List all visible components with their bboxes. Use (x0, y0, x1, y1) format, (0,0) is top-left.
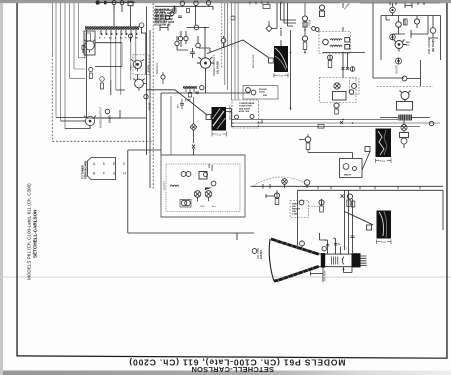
svg-text:10: 10 (333, 238, 335, 240)
node A ring (180, 1, 184, 5)
ref ring ion2 (401, 138, 407, 144)
dashed filament arc (253, 177, 310, 186)
lamp ring f1 (282, 179, 288, 185)
label width stack (209, 163, 214, 171)
ref box T2 (269, 58, 274, 63)
pot h5 (303, 3, 307, 53)
mini dashed box left (350, 79, 360, 95)
audio enclosure left leg (128, 150, 254, 233)
ref ring 31 (178, 36, 182, 40)
sound IF parts (186, 89, 199, 97)
ref ring h2 (302, 16, 307, 21)
capacitor C8 (100, 77, 105, 89)
cap APC (180, 99, 184, 109)
svg-text:B F G H: B F G H (93, 172, 129, 176)
pilot lamp 1 (194, 191, 201, 202)
ref ring pair b (186, 172, 191, 177)
tone text block (239, 103, 255, 113)
tone box (232, 100, 259, 128)
page border right (446, 3, 447, 358)
svg-text:5 cs: 5 cs (217, 133, 222, 137)
svg-text:1B3: 1B3 (406, 42, 411, 44)
scan background top band (0, 0, 451, 3)
ticks top right rail (390, 2, 424, 5)
ref ring vert3 (319, 200, 324, 205)
audio box outer (161, 155, 245, 217)
dashed link (309, 206, 320, 208)
CRT grid elements (332, 257, 338, 265)
wire into box (128, 149, 161, 151)
pot vert1 (275, 199, 279, 205)
resistor R5 (89, 67, 93, 78)
ref ring 5 (105, 109, 110, 114)
svg-text:4.5MC: 4.5MC (185, 99, 192, 102)
filament stubs (263, 184, 307, 189)
vert lin dashed box (290, 201, 309, 218)
wire sound if stub (162, 72, 164, 84)
tube V7 damper (400, 91, 411, 102)
ref ring ion1 (401, 125, 407, 131)
CRT funnel top edge (271, 239, 319, 254)
svg-text:AG: AG (109, 37, 112, 40)
wires below neck (237, 233, 352, 282)
dot hv4 (391, 36, 393, 38)
page border left (16, 3, 17, 356)
svg-text:TERM BOARD: TERM BOARD (84, 161, 88, 179)
dot hv1 (391, 9, 393, 11)
svg-text:GT: GT (406, 45, 410, 47)
ref ring h5 (302, 36, 307, 41)
node B ring (194, 1, 198, 5)
wire audio plate (95, 110, 121, 118)
wire speaker leads (226, 109, 234, 127)
wire video to sync diagonal (207, 40, 269, 58)
diode sym CR1 diamond (266, 21, 277, 32)
svg-text:GD: GD (135, 38, 138, 40)
test point TP2 (104, 1, 107, 5)
svg-text:JACK: JACK (259, 91, 265, 94)
ref ring in box (204, 173, 208, 177)
junction dot neck (343, 269, 345, 271)
svg-text:B: B (99, 38, 101, 40)
svg-text:OSC: OSC (131, 65, 133, 70)
node ring fine tune (128, 34, 132, 38)
dashed rail hv (377, 85, 434, 87)
ref ring coil r (429, 121, 433, 125)
IF strip value text block dark (154, 9, 176, 27)
dimension T2 (274, 73, 288, 78)
cap hv (404, 19, 408, 25)
tube V4 video output (197, 57, 214, 72)
wire video down (161, 72, 250, 155)
svg-text:PHONO: PHONO (259, 89, 267, 91)
ref ring o2 (334, 103, 339, 108)
ref ring t2 (250, 115, 254, 119)
wire boost stems (393, 3, 406, 65)
CRT yoke bar (321, 253, 325, 268)
wire grid stubs (177, 31, 198, 43)
wire if stubs (160, 5, 224, 50)
wire IF bus verticals (222, 3, 238, 100)
scan background left strip (0, 3, 3, 375)
ref ring damp (402, 76, 407, 81)
pin marks hv tube (406, 42, 411, 47)
svg-text:SETCHELL-CARLSON: SETCHELL-CARLSON (191, 365, 274, 374)
svg-text:H: H (125, 38, 127, 40)
pot n1 (328, 61, 332, 68)
ref ring n2 (350, 67, 355, 72)
wire tuner inner v (121, 43, 123, 67)
ref ring hv4 (390, 34, 396, 40)
wire neck lower stub (301, 240, 303, 248)
wire 2nd rail (187, 27, 210, 29)
audio box inner dashed (166, 164, 240, 212)
ref ring w1 (343, 164, 349, 170)
power line ticks (318, 186, 420, 189)
svg-text:MIXER: MIXER (148, 65, 150, 72)
svg-text:SOUND IF: SOUND IF (156, 62, 159, 74)
svg-text:5 cs: 5 cs (279, 74, 284, 78)
svg-text:L TRIM: L TRIM (309, 20, 312, 28)
wire diamond feed (193, 97, 195, 124)
box d2 (345, 38, 350, 43)
tube V5 osc (334, 83, 340, 89)
node C ring (206, 1, 210, 5)
cap o2 (335, 109, 339, 114)
tuner shield sub-box (84, 31, 95, 55)
dimension speaker (212, 132, 227, 137)
transformer T2 photo blob (274, 46, 288, 72)
ref ring d1 (323, 39, 329, 45)
tube V8 sound if (133, 79, 146, 91)
wire coil leads (380, 117, 430, 119)
wire vert rail (298, 189, 444, 191)
CRT base pins (361, 256, 367, 265)
svg-text:(B) 6AQ5: (B) 6AQ5 (431, 39, 435, 52)
tube V1 RF amp (82, 40, 96, 53)
page border bottom (16, 355, 447, 359)
wire bus left (52, 3, 85, 129)
vert text block (292, 204, 301, 216)
sync box (243, 86, 278, 100)
neck top comp (326, 236, 355, 246)
svg-text:WIDTH: WIDTH (344, 175, 352, 177)
vert out tube (0, 0, 1, 1)
wire diag to yoke (345, 212, 374, 225)
ref ring 30 (194, 25, 199, 30)
wire rail y152 (308, 153, 353, 159)
svg-text:OUTPUT: OUTPUT (164, 180, 166, 190)
wire rail y52 (323, 52, 366, 54)
wire top rail (155, 5, 213, 7)
ref ring h3 (312, 27, 316, 31)
ref ring contrast (305, 137, 311, 143)
svg-text:2: 2 (325, 240, 326, 242)
wire bends (281, 20, 297, 26)
ref box flyback (365, 147, 370, 152)
ref ring neck (322, 247, 326, 251)
coil winding 1 (330, 39, 342, 40)
box ion (400, 133, 409, 138)
ref ring w2 (353, 167, 357, 171)
junction tick 1 (342, 67, 345, 70)
node ring on bus (231, 16, 235, 20)
coil winding 2 (330, 45, 342, 46)
ref ring neck lower (300, 241, 305, 246)
ref ring hv1 (390, 7, 396, 13)
ref ring t1 (235, 115, 239, 119)
svg-text:(A) 6AU8: (A) 6AU8 (216, 61, 220, 74)
tube V2 mixer (131, 60, 144, 72)
svg-text:TONE: TONE (212, 164, 214, 171)
ref ring c (211, 181, 216, 186)
wire mixer loop (142, 28, 146, 60)
comp marks on rails (257, 120, 343, 125)
pot vert3 (320, 206, 324, 212)
wire diagonal to speaker (146, 90, 207, 115)
svg-text:K: K (115, 38, 117, 40)
resistor Rh1 (320, 11, 325, 17)
sound IF transformer hatch (183, 86, 197, 89)
wire top rail dotted (230, 2, 340, 4)
ref ring vert4 (347, 194, 352, 199)
discriminator dashed box (319, 32, 351, 54)
ref ring sound if (161, 75, 165, 79)
neck wire labels (325, 238, 347, 250)
svg-text:TUNER: TUNER (83, 49, 87, 58)
funnel hatch texture bottom (277, 267, 314, 281)
scan background bottom band (0, 371, 451, 375)
tuner box outline (87, 30, 147, 118)
svg-text:SETCHELL-CARLSON: SETCHELL-CARLSON (33, 209, 38, 258)
fold crease line (0, 276, 451, 279)
svg-text:ION TRAP: ION TRAP (324, 270, 327, 281)
ref ring pair a (181, 172, 186, 177)
tube V3 audio output 6AR5 (82, 116, 96, 129)
wire diag to flyback (362, 152, 370, 171)
tuner pin labels (99, 37, 138, 40)
svg-text:21ATP4: 21ATP4 (260, 249, 263, 259)
wire hv cross (405, 16, 428, 35)
ref ring 34 (196, 43, 201, 48)
wire top cluster (95, 2, 135, 4)
dashed enclosure bottom (52, 140, 153, 142)
tube V6 hv rect (394, 40, 407, 52)
pilot lamp 2 (205, 191, 212, 202)
wire long rail 2 (234, 122, 440, 124)
dashed enclosure left (51, 55, 53, 141)
ref ring o1 (349, 90, 353, 94)
ref box yoke (367, 225, 372, 230)
horiz osc dashed box (320, 78, 357, 103)
junction dots rails (280, 28, 353, 124)
junction tick v (341, 195, 344, 198)
ref ring 32 (184, 36, 188, 40)
AGC hatched bus bar (85, 26, 139, 29)
CRT gun arc (342, 257, 344, 265)
wire long rail 3 (234, 126, 420, 128)
funnel hatch texture top (276, 240, 313, 254)
ref ring s2 (251, 90, 256, 95)
dimension yoke (377, 240, 392, 245)
width coil hatched (398, 115, 412, 121)
wire ion stem (403, 121, 405, 149)
svg-text:B+: B+ (120, 38, 123, 40)
coil L-audio (170, 185, 179, 187)
svg-text:A K E C: A K E C (93, 162, 129, 166)
svg-text:5 cs: 5 cs (381, 240, 386, 244)
resistor R-top (128, 1, 133, 6)
svg-text:TONE CONT: TONE CONT (239, 106, 253, 108)
wires into neck (320, 190, 353, 254)
svg-text:MODELS P61 (Ch. C100-Late), 61: MODELS P61 (Ch. C100-Late), 611 (Ch. C30… (27, 183, 32, 280)
terminal board TB1 (88, 158, 116, 180)
varistor sym (192, 145, 195, 156)
ref ring h1 (319, 5, 324, 10)
wire to audio box (170, 96, 172, 155)
sync text block (259, 89, 267, 97)
ref ring h4 (315, 28, 319, 32)
pin dots (101, 33, 137, 35)
svg-text:C: C (104, 38, 106, 40)
ref box speaker (206, 115, 211, 120)
CRT neck outline (319, 254, 353, 267)
box damper (397, 102, 413, 111)
cap Ch2 (303, 22, 307, 27)
ref ring n1 (328, 55, 333, 60)
boxed comp audio (199, 172, 207, 180)
svg-text:VOL: VOL (209, 163, 211, 168)
width coil box (340, 159, 363, 178)
transistor sym Q1 (diamond) (190, 124, 197, 144)
tick rail tops (250, 2, 281, 5)
svg-text:12: 12 (338, 244, 340, 246)
ref ring big right (430, 28, 436, 34)
cap stack left of video tube (190, 48, 195, 58)
box osc slug (333, 92, 347, 101)
resistor r22 (187, 9, 190, 13)
lamp ring f2 (304, 180, 310, 186)
test point TP1 (96, 1, 100, 5)
capacitor C-top1 (112, 1, 116, 5)
tuner inner rect (86, 33, 91, 41)
yoke photo blob (377, 211, 392, 239)
svg-text:3.3M: 3.3M (292, 214, 297, 216)
tick hold (265, 194, 267, 198)
ref ring mini (352, 84, 357, 89)
wire 4.5mc stem (342, 3, 344, 32)
socket rings (180, 200, 191, 208)
box d3 (345, 45, 350, 50)
svg-text:5 cs: 5 cs (380, 159, 385, 163)
svg-text:AGC 120K .05: AGC 120K .05 (154, 24, 171, 27)
wire bus verticals (277, 3, 288, 29)
junction tick 2 (346, 67, 349, 70)
wire damp (407, 60, 421, 86)
CRT funnel bottom edge (274, 266, 319, 281)
wire vert right leg (442, 190, 444, 230)
ref ring hv2 (396, 22, 402, 28)
capacitor C-top2 (120, 1, 124, 5)
wire hold stem (266, 190, 345, 250)
node ring at bar end (139, 23, 144, 28)
wire trafo stem (281, 30, 291, 110)
wire right col spine (373, 3, 404, 78)
wire det out (199, 48, 210, 52)
speaker photo blob (212, 107, 227, 131)
ref ring vert1 (274, 193, 279, 198)
ref ring 35 (221, 38, 226, 43)
pot contrast (299, 134, 310, 153)
resistor tiny top (263, 5, 270, 9)
wire hv box (381, 16, 441, 61)
dimension flyback (376, 159, 392, 164)
ring sound IF (200, 85, 204, 89)
pot rects vert (347, 200, 350, 207)
ref ring 33 (175, 41, 179, 45)
parts value text block (155, 10, 170, 23)
CRT bell face (269, 239, 274, 281)
svg-text:6AU6: 6AU6 (148, 102, 152, 110)
ref ring s1 (246, 88, 251, 93)
svg-text:1: 1 (346, 248, 347, 250)
cap c23 (178, 16, 182, 18)
dashed osc box (133, 55, 149, 75)
svg-text:COMPROMISE: COMPROMISE (239, 103, 255, 105)
dot boost (397, 60, 399, 62)
CRT label ring (252, 249, 257, 254)
wire filament rail (251, 185, 444, 187)
hv box inner stubs (386, 3, 438, 38)
resistor below ring 21 (173, 8, 176, 13)
wire video stem (175, 6, 206, 57)
wire vertical at 150 (149, 30, 151, 188)
ref ring hv3 (414, 19, 419, 24)
wire vertical at 146 (146, 7, 148, 156)
resistor on rail (318, 125, 324, 129)
svg-text:AUDIO OUTPUT: AUDIO OUTPUT (99, 107, 103, 128)
CRT base connector (352, 253, 361, 267)
svg-text:470K .005: 470K .005 (239, 110, 250, 113)
antenna pin stubs (101, 30, 136, 35)
ref ring 21 (170, 12, 174, 16)
svg-text:60 c: 60 c (212, 206, 216, 208)
ref ring 22 (166, 16, 170, 20)
svg-text:6AR5: 6AR5 (108, 115, 112, 123)
wire RF lines down (111, 35, 136, 95)
svg-text:115V: 115V (200, 206, 205, 208)
svg-text:AGC KEYING: AGC KEYING (252, 54, 255, 68)
ref ring vert2 (299, 200, 304, 205)
wire audio grid (56, 118, 90, 129)
wire long rail 1 (234, 118, 398, 120)
svg-text:APC: APC (177, 103, 180, 108)
flyback photo blob (376, 129, 392, 158)
wire stems (330, 53, 353, 79)
ref ring boost (396, 58, 402, 64)
cap wedge (205, 188, 212, 191)
svg-text:22K: 22K (263, 95, 267, 97)
wire vert left leg (297, 190, 299, 246)
svg-text:BOOST: BOOST (396, 65, 399, 74)
junction dots top rail (174, 6, 206, 29)
ref ring V8 (144, 94, 148, 98)
dashed section boundary (152, 3, 154, 190)
tuner inner wires (81, 38, 146, 95)
